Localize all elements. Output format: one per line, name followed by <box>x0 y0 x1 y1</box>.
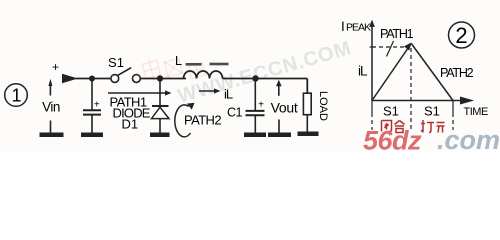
input capacitor ground bar <box>81 133 103 138</box>
capacitor C1 wire top <box>254 79 256 111</box>
red label open (da-kai) <box>421 120 445 133</box>
Vout arrow <box>276 80 282 87</box>
input capacitor plates <box>83 109 101 111</box>
graph y-axis <box>371 25 373 101</box>
node: diode junction <box>157 75 163 81</box>
input capacitor wire bottom <box>91 115 93 133</box>
svg-text:.com: .com <box>437 125 500 151</box>
dashed vertical from peak <box>410 48 412 130</box>
Vout ground stub <box>278 120 280 134</box>
capacitor C1 plates <box>246 110 265 112</box>
wire: inductor to output <box>223 78 308 80</box>
PATH1 pointer line <box>387 41 394 57</box>
Vin ground bar <box>40 133 64 138</box>
load wire bottom <box>306 115 308 132</box>
svg-text:L: L <box>175 54 182 68</box>
watermark dark dash 2 <box>210 63 229 66</box>
diode D1 wire top <box>159 81 161 106</box>
watermark pink chinese glyph 1 <box>141 57 161 83</box>
input capacitor wire top <box>91 79 93 110</box>
node: input cap junction <box>89 76 95 82</box>
svg-text:S1: S1 <box>108 55 124 70</box>
svg-text:+: + <box>258 100 264 111</box>
red label closed (bi-he) <box>382 121 405 133</box>
svg-text:TIME: TIME <box>464 106 488 118</box>
svg-text:1: 1 <box>11 86 21 106</box>
diode ground bar <box>150 133 170 138</box>
circled number 2 <box>449 22 475 48</box>
load ground bar <box>298 132 319 137</box>
node: output cap junction <box>252 75 258 81</box>
graph x-axis <box>372 100 462 102</box>
svg-text:iL: iL <box>358 64 368 79</box>
Vin ground stub <box>50 121 52 134</box>
switch S1 lever <box>118 68 132 76</box>
Vin arrow <box>49 84 51 96</box>
svg-text:Vin: Vin <box>42 100 60 115</box>
tick at origin below axis <box>371 101 373 118</box>
triangle rising edge <box>372 45 411 101</box>
svg-text:S1: S1 <box>424 104 440 119</box>
svg-text:Vout: Vout <box>271 100 298 116</box>
svg-text:S1: S1 <box>383 104 399 119</box>
diode D1 wire bottom <box>159 119 161 133</box>
svg-text:56dz: 56dz <box>363 126 422 152</box>
wire: drop to load <box>306 79 308 94</box>
arrowhead at triangle peak <box>404 43 412 51</box>
svg-text:+: + <box>52 60 59 74</box>
y-axis tick at I PEAK level <box>370 46 375 48</box>
svg-text:I: I <box>341 19 345 34</box>
tick at period end <box>452 101 454 118</box>
wire: input to switch <box>76 78 111 80</box>
svg-text:C1: C1 <box>227 106 243 120</box>
triangle falling edge <box>411 44 453 101</box>
watermark pink chinese glyph 2 <box>164 59 182 77</box>
svg-text:PATH2: PATH2 <box>440 66 474 80</box>
Vout ground bar <box>268 133 291 138</box>
circled number 1 <box>5 84 28 107</box>
svg-text:PATH1: PATH1 <box>380 27 414 41</box>
svg-text:PEAK: PEAK <box>346 22 371 34</box>
wire: switch to inductor <box>140 78 186 80</box>
dashed peak level line <box>372 46 408 48</box>
capacitor C1 ground bar <box>244 133 266 138</box>
input arrow (filled triangle) <box>62 74 78 84</box>
svg-text:LOAD: LOAD <box>317 91 329 121</box>
PATH1 current arrow <box>108 92 167 94</box>
svg-text:iL: iL <box>224 87 233 102</box>
inductor L <box>184 71 223 79</box>
iL current arrow <box>199 90 216 92</box>
svg-text:D1: D1 <box>122 117 139 132</box>
svg-text:+: + <box>94 100 100 111</box>
watermark dark dash 1 <box>186 63 202 66</box>
load resistor <box>303 93 311 115</box>
switch S1 contacts <box>111 75 119 83</box>
capacitor C1 wire bottom <box>254 115 256 133</box>
PATH2 curved arrow <box>175 105 191 137</box>
diode D1 triangle <box>152 107 170 118</box>
svg-text:2: 2 <box>455 23 467 48</box>
watermark pink chinese glyph 3 <box>189 62 206 78</box>
svg-text:PATH2: PATH2 <box>184 113 221 128</box>
diode D1 cathode bar <box>152 105 169 107</box>
